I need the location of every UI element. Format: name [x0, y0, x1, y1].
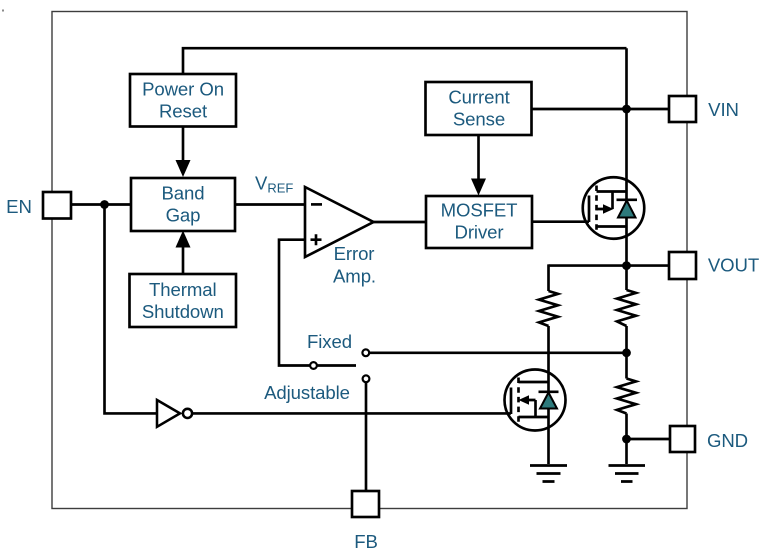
pin pad VOUT [669, 252, 696, 279]
svg-text:FB: FB [354, 531, 378, 552]
wire EN branch down to inverter [105, 205, 158, 414]
block Band Gap [131, 178, 235, 231]
inverter U2 triangle [157, 400, 180, 427]
transistor Q2 discharge MOSFET [505, 370, 566, 431]
wire error amp plus input from switch [279, 240, 356, 366]
op-amp plus sign [311, 234, 322, 245]
arrow Power On Reset to Band Gap [182, 126, 185, 161]
wire Current Sense to VIN pad [531, 108, 669, 111]
wire top rail from POR to VIN trunk [183, 48, 627, 74]
ground symbol under Q2 [530, 466, 567, 482]
svg-text:Gap: Gap [166, 204, 201, 225]
block Current Sense [426, 82, 532, 135]
block Thermal Shutdown [130, 274, 237, 327]
switch Fixed contact circle [362, 349, 369, 356]
resistor R2 [617, 290, 636, 326]
svg-text:Shutdown: Shutdown [142, 301, 224, 322]
inverter U2 bubble [183, 409, 192, 418]
wire Adjustable contact down to FB pad [365, 383, 368, 491]
svg-text:Driver: Driver [455, 222, 504, 243]
op-amp U1 error amplifier [305, 187, 374, 257]
wire VIN trunk vertical x=626.5 [625, 48, 628, 290]
pin pad VIN [669, 96, 696, 122]
svg-text:EN: EN [6, 196, 32, 217]
resistor R3 [617, 379, 636, 414]
svg-text:Sense: Sense [453, 109, 505, 130]
svg-text:Current: Current [448, 86, 510, 107]
wire VOUT node to VOUT pad [549, 264, 670, 267]
wire inverter to Q2 gate [193, 412, 512, 415]
arrow Thermal Shutdown to Band Gap [182, 247, 185, 274]
arrow Current Sense to MOSFET Driver [477, 135, 480, 179]
wire error amp output to MOSFET Driver [373, 221, 426, 224]
svg-text:Amp.: Amp. [333, 266, 376, 287]
block Power On Reset [130, 74, 236, 127]
svg-text:Reset: Reset [159, 100, 208, 121]
speck artifact top-left [2, 10, 4, 12]
svg-text:Power On: Power On [142, 79, 224, 100]
wire MOSFET Driver to Q1 gate [531, 220, 589, 223]
resistor R1 [539, 291, 558, 326]
wire R1 branch down to Q2 [547, 264, 550, 464]
op-amp minus sign [311, 203, 322, 206]
wire Fixed tap line [370, 351, 627, 354]
node junction at VIN rail [622, 105, 631, 114]
switch Adjustable contact circle [363, 375, 370, 382]
pin pad GND [670, 426, 695, 452]
ground symbol right [609, 466, 646, 482]
transistor Q1 pass MOSFET [583, 177, 645, 239]
node junction EN [100, 200, 109, 209]
wire R2 bottom through Fixed node to R3 [625, 326, 628, 379]
node junction Fixed tap [622, 348, 631, 357]
svg-text:Error: Error [334, 243, 375, 264]
svg-text:GND: GND [707, 430, 748, 451]
node junction GND [622, 435, 631, 444]
svg-text:MOSFET: MOSFET [441, 200, 518, 221]
svg-text:Fixed: Fixed [307, 331, 352, 352]
svg-text:VIN: VIN [708, 99, 739, 120]
svg-text:Adjustable: Adjustable [264, 382, 350, 403]
pin pad FB [352, 491, 379, 517]
block MOSFET Driver [426, 196, 532, 248]
body diode of Q1 [617, 200, 638, 218]
svg-text:VOUT: VOUT [708, 255, 759, 276]
IC boundary box [52, 12, 687, 509]
switch common terminal circle [310, 362, 317, 369]
wire VREF Band Gap to error amp [235, 203, 305, 206]
pin pad EN [43, 192, 71, 219]
svg-text:Thermal: Thermal [149, 279, 217, 300]
wire R3 bottom to ground [625, 414, 628, 465]
wire GND node to GND pad [627, 438, 671, 441]
node junction at VOUT rail [622, 261, 631, 270]
svg-text:Band: Band [161, 182, 204, 203]
wire EN pad to Band Gap [71, 203, 131, 206]
body diode of Q2 [539, 392, 559, 409]
